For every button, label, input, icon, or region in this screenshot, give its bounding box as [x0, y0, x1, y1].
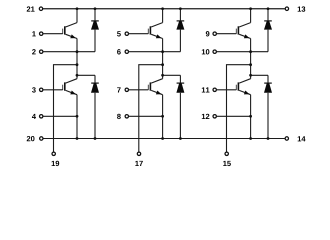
- junction: leg 2 collector on top rail: [161, 7, 164, 10]
- pin 8 terminal (aux emitter of Q4): [125, 115, 128, 118]
- pin 5 terminal (gate of Q3): [125, 32, 128, 35]
- wire: pin 3 gate lead: [43, 89, 63, 91]
- pin 7 label: [117, 87, 121, 92]
- junction: aux emitter node Q6: [249, 115, 252, 118]
- pin 6 terminal (aux emitter of Q3): [125, 50, 128, 53]
- wire: pin 6 lead to midpoint and D3 anode: [129, 51, 181, 53]
- pin 9 label: [206, 31, 210, 36]
- junction: leg 1 collector on top rail: [76, 7, 79, 10]
- wire: midpoint to D4 cathode connector leg 2: [163, 74, 181, 76]
- pin 17 label: [135, 161, 143, 166]
- junction: aux emitter node Q4: [161, 115, 164, 118]
- wire: pin 8 lead: [129, 115, 163, 117]
- junction: aux emitter node Q2: [76, 115, 79, 118]
- transistor Q4 (lower IGBT leg 2): [148, 79, 162, 95]
- junction: Q4 emitter on bottom rail: [161, 137, 164, 140]
- pin 13 label: [298, 6, 306, 11]
- pin 6 label: [117, 49, 121, 54]
- wire: phase output tap leg 3: [227, 65, 251, 152]
- pin 11 label: [202, 87, 210, 92]
- pin 19 label: [52, 161, 60, 166]
- junction: midpoint node leg 1 at aux emitter: [76, 50, 79, 53]
- pin 11 terminal (gate of Q6): [213, 88, 216, 91]
- pin 17 terminal (phase output leg 2): [137, 152, 140, 155]
- junction: D4 connector on midpoint leg 2: [161, 74, 164, 77]
- pin 14 label: [298, 136, 306, 141]
- diode D5 (upper freewheel diode leg 3): [264, 9, 272, 52]
- pin 2 label: [32, 49, 36, 54]
- pin 13 terminal (positive bus, right): [285, 7, 288, 10]
- wire: midpoint to D2 cathode connector leg 1: [77, 74, 95, 76]
- junction: D6 connector on midpoint leg 3: [249, 74, 252, 77]
- wire: midpoint to D6 cathode connector leg 3: [251, 74, 268, 76]
- junction: midpoint node leg 2 at aux emitter: [161, 50, 164, 53]
- wire: pin 10 lead to midpoint and D5 anode: [216, 51, 268, 53]
- wire: negative bus rail (bottom, pin 20 to pin 14): [43, 138, 285, 140]
- junction: phase tap on midpoint leg 1: [76, 63, 79, 66]
- wire: Q6 emitter vertical to bottom rail: [250, 95, 252, 139]
- junction: D2 connector on midpoint leg 1: [76, 74, 79, 77]
- diode D3 (upper freewheel diode leg 2): [176, 9, 184, 52]
- wire: pin 5 gate lead: [129, 33, 149, 35]
- junction: Q6 emitter on bottom rail: [249, 137, 252, 140]
- junction: D5 cathode on top rail: [267, 7, 270, 10]
- pin 8 label: [117, 114, 121, 119]
- transistor Q1 (upper IGBT leg 1): [63, 23, 77, 39]
- diode D6 (lower freewheel diode leg 3): [264, 75, 272, 138]
- transistor Q6 (lower IGBT leg 3): [236, 79, 250, 95]
- junction: D4 anode on bottom rail: [179, 137, 182, 140]
- transistor Q2 (lower IGBT leg 1): [63, 79, 77, 95]
- junction: phase tap on midpoint leg 3: [249, 63, 252, 66]
- junction: D6 anode on bottom rail: [267, 137, 270, 140]
- pin 20 terminal (negative bus, left): [40, 137, 43, 140]
- pin 12 terminal (aux emitter of Q6): [213, 115, 216, 118]
- wire: leg 2 collector vertical from top rail: [162, 9, 164, 23]
- junction: D3 cathode on top rail: [179, 7, 182, 10]
- wire: leg 3 collector vertical from top rail: [250, 9, 252, 23]
- pin 7 terminal (gate of Q4): [125, 88, 128, 91]
- wire: pin 4 lead: [43, 115, 77, 117]
- diode D2 (lower freewheel diode leg 1): [91, 75, 99, 138]
- wire: pin 7 gate lead: [129, 89, 149, 91]
- pin 4 label: [32, 114, 36, 119]
- pin 15 label: [223, 161, 231, 166]
- junction: Q2 emitter on bottom rail: [76, 137, 79, 140]
- pin 19 terminal (phase output leg 1): [52, 152, 55, 155]
- wire: Q2 emitter vertical to bottom rail: [76, 95, 78, 139]
- junction: midpoint node leg 3 at aux emitter: [249, 50, 252, 53]
- diode D1 (upper freewheel diode leg 1): [91, 9, 99, 52]
- pin 14 terminal (negative bus, right): [285, 137, 288, 140]
- pin 10 terminal (aux emitter of Q5): [213, 50, 216, 53]
- pin 3 label: [32, 87, 36, 92]
- junction: D2 anode on bottom rail: [94, 137, 97, 140]
- pin 3 terminal (gate of Q2): [40, 88, 43, 91]
- pin 15 terminal (phase output leg 3): [225, 152, 228, 155]
- wire: pin 2 lead to midpoint and D1 anode: [43, 51, 95, 53]
- wire: pin 11 gate lead: [216, 89, 236, 91]
- junction: leg 3 collector on top rail: [249, 7, 252, 10]
- pin 12 label: [202, 114, 210, 119]
- wire: leg 2 emitter/midpoint vertical: [162, 39, 164, 79]
- wire: leg 1 emitter/midpoint vertical: [76, 39, 78, 79]
- pin 20 label: [27, 136, 35, 141]
- wire: phase output tap leg 2: [139, 65, 163, 152]
- junction: phase tap on midpoint leg 2: [161, 63, 164, 66]
- pin 1 terminal (gate of Q1): [40, 32, 43, 35]
- pin 5 label: [117, 31, 121, 36]
- wire: leg 1 collector vertical from top rail: [76, 9, 78, 23]
- wire: positive bus rail (top, pin 21 to pin 13): [43, 8, 285, 10]
- junction: D1 cathode on top rail: [94, 7, 97, 10]
- pin 9 terminal (gate of Q5): [213, 32, 216, 35]
- pin 21 label: [27, 6, 35, 11]
- pin 1 label: [32, 31, 35, 36]
- wire: pin 9 gate lead: [216, 33, 236, 35]
- pin 2 terminal (aux emitter of Q1): [40, 50, 43, 53]
- wire: pin 12 lead: [216, 115, 250, 117]
- diode D4 (lower freewheel diode leg 2): [176, 75, 184, 138]
- pin 4 terminal (aux emitter of Q2): [40, 115, 43, 118]
- wire: Q4 emitter vertical to bottom rail: [162, 95, 164, 139]
- wire: pin 1 gate lead: [43, 33, 63, 35]
- transistor Q5 (upper IGBT leg 3): [236, 23, 250, 39]
- transistor Q3 (upper IGBT leg 2): [148, 23, 162, 39]
- wire: leg 3 emitter/midpoint vertical: [250, 39, 252, 79]
- pin 21 terminal (positive bus, left): [39, 7, 42, 10]
- pin 10 label: [202, 49, 210, 54]
- wire: phase output tap leg 1: [54, 65, 78, 152]
